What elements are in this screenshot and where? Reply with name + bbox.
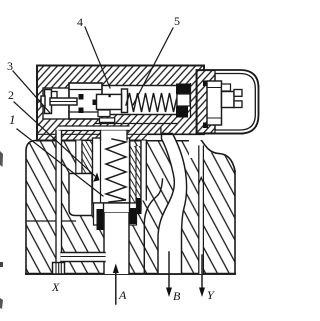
left edge scan smudges — [0, 151, 3, 167]
white strip below bonnet right — [147, 135, 204, 140]
arrow Y down — [201, 255, 203, 292]
label Y — [207, 289, 214, 301]
label B — [173, 290, 180, 302]
label X — [52, 281, 59, 293]
end cap outer shell — [197, 70, 259, 134]
label 3 — [7, 60, 13, 72]
pilot seat end block — [97, 94, 122, 109]
lower valve body (hatched backslash) — [26, 141, 235, 275]
fine hatched sleeve wall right — [130, 146, 141, 203]
spring washer — [122, 89, 128, 113]
Y channel — [199, 146, 204, 274]
Y drill cone — [199, 178, 204, 185]
body shoulder S-curve — [202, 141, 236, 172]
joint line left wall — [26, 220, 76, 222]
stem between seals — [177, 94, 190, 106]
hatched block inside cap — [197, 71, 215, 134]
B channel elbow — [158, 134, 187, 274]
pilot flange — [45, 90, 52, 114]
black seat left — [97, 209, 105, 230]
locknut top — [222, 84, 231, 91]
white wedge below cap — [198, 135, 245, 169]
bonnet joint line mid — [127, 133, 161, 135]
fork prong bottom — [234, 101, 242, 108]
step below seat 1 — [98, 110, 110, 117]
label 4 — [77, 16, 83, 28]
seal ring top on bonnet neck — [203, 81, 208, 87]
seal ring bottom on bonnet neck — [203, 123, 208, 129]
leader line 2 — [14, 102, 95, 176]
upper housing bonnet (hatched slash) — [37, 66, 204, 141]
pilot stem — [50, 98, 77, 105]
bonnet bottom edge right — [147, 133, 204, 135]
A channel — [104, 213, 129, 274]
slot right of sleeve (white) — [141, 141, 146, 201]
arch wall inner boundary — [144, 179, 162, 274]
thin horizontal passage under bonnet — [59, 126, 129, 131]
leader line 4 — [85, 27, 110, 88]
fine hatched sleeve wall left — [82, 141, 93, 174]
pilot screw head — [41, 96, 45, 106]
arrow A up — [115, 268, 117, 304]
leader line 3 — [13, 71, 50, 113]
cap bottom edge — [198, 133, 244, 135]
sleeve wall line left of spring — [100, 138, 102, 203]
X horizontal passage — [61, 253, 105, 262]
notch on seat block — [109, 94, 111, 97]
end cap inner wall — [215, 74, 255, 131]
joint tick below housing right — [160, 128, 162, 134]
label 5 — [174, 15, 180, 27]
pilot detail dark bottom — [79, 108, 84, 114]
main spring horizontal zigzag — [126, 93, 177, 112]
main spring chamber (horizontal) — [96, 86, 177, 115]
seat area below chamber — [94, 203, 137, 225]
pilot cavity — [43, 88, 69, 119]
fork prong top — [234, 90, 242, 97]
white area above Y slot — [189, 135, 206, 158]
seal black top right — [176, 84, 190, 95]
hatched band under chamber — [96, 123, 177, 125]
seal black bottom right — [176, 107, 188, 118]
spool tip — [104, 203, 130, 213]
leader line 5 — [133, 28, 173, 105]
leader line 1 — [17, 129, 103, 196]
bonnet joint line left — [37, 133, 101, 135]
arrow B down — [168, 252, 170, 292]
left pocket — [69, 174, 92, 216]
spool upper column — [101, 131, 128, 141]
X plug — [53, 263, 65, 275]
screw stem — [222, 92, 235, 108]
step below seat 2 — [100, 118, 115, 123]
bonnet neck boundary line — [190, 84, 192, 118]
black seat right — [130, 208, 137, 224]
body bottom edge — [26, 273, 235, 275]
label 1 — [9, 114, 16, 126]
pilot housing — [69, 83, 102, 119]
adjusting screw flange — [207, 81, 222, 125]
vertical spring zigzag — [106, 139, 126, 202]
leader 2 arrowhead — [93, 173, 99, 182]
dark land left of arch — [136, 198, 142, 214]
X vertical slot — [56, 131, 62, 264]
label A — [119, 289, 126, 301]
chamber bottom line — [93, 202, 142, 204]
label 2 — [8, 89, 14, 101]
poppet contact dark — [93, 100, 98, 106]
sleeve slot above pocket — [76, 141, 82, 174]
spool spring chamber (vertical) — [93, 138, 130, 203]
small step above stem — [52, 92, 58, 99]
pilot detail dark top — [79, 94, 84, 100]
